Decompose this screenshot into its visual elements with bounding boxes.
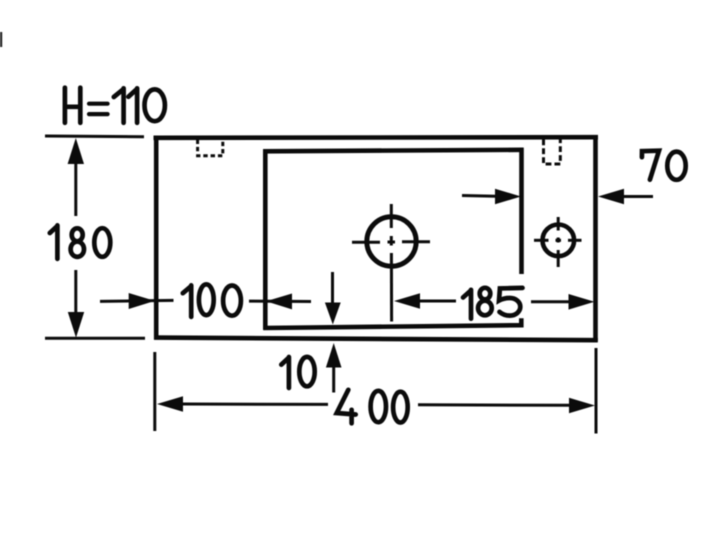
label H=110 xyxy=(65,88,165,123)
large hole centerline vertical with extension xyxy=(390,204,393,322)
small hole centerline vertical xyxy=(557,217,560,267)
pocket bottom edge with end stub xyxy=(263,318,521,328)
large hole circle xyxy=(367,217,416,266)
dim 400 left arrow xyxy=(157,396,328,412)
dim 70 right arrow xyxy=(598,189,653,205)
dim 10 lower arrow (up) xyxy=(326,343,342,393)
dim 180 text xyxy=(50,225,111,259)
dim 185 right arrow xyxy=(531,294,595,310)
dim 185 text xyxy=(463,288,523,319)
dim 400 left extension line xyxy=(153,352,156,431)
hidden detail square 1 (dashed) xyxy=(198,140,223,156)
dim 180 upper line with up arrow xyxy=(68,138,84,216)
dim 400 right extension line xyxy=(595,348,598,434)
dim 100 text xyxy=(183,284,241,317)
dim 70 text xyxy=(642,151,686,180)
dim 180 bottom extension line xyxy=(45,337,145,340)
dim 10 upper arrow (down) xyxy=(325,272,341,325)
dim 10 text xyxy=(281,357,314,388)
hidden detail square 2 (dashed) xyxy=(544,139,561,164)
plate outline bottom edge xyxy=(154,338,598,341)
plate outline left edge xyxy=(154,136,159,340)
small hole circle xyxy=(543,225,575,257)
plate outline top edge xyxy=(154,135,599,140)
plate outline right edge xyxy=(593,135,598,341)
dim 100 left arrow xyxy=(100,293,174,309)
dim 180 top extension line xyxy=(45,135,144,139)
dim 400 right arrow xyxy=(418,398,595,414)
dim 185 left arrow xyxy=(394,293,456,309)
pocket right edge xyxy=(519,148,524,274)
dim 180 lower line with down arrow xyxy=(68,270,84,338)
dim 400 text xyxy=(337,390,408,424)
scan artifact tick at left edge xyxy=(0,32,2,47)
dim 100 right arrow xyxy=(249,294,311,310)
dim 70 left arrow xyxy=(462,189,521,205)
pocket top edge xyxy=(263,150,523,152)
pocket left edge xyxy=(263,149,268,329)
small hole centerline horizontal xyxy=(534,239,582,242)
large hole centerline horizontal xyxy=(352,240,430,244)
